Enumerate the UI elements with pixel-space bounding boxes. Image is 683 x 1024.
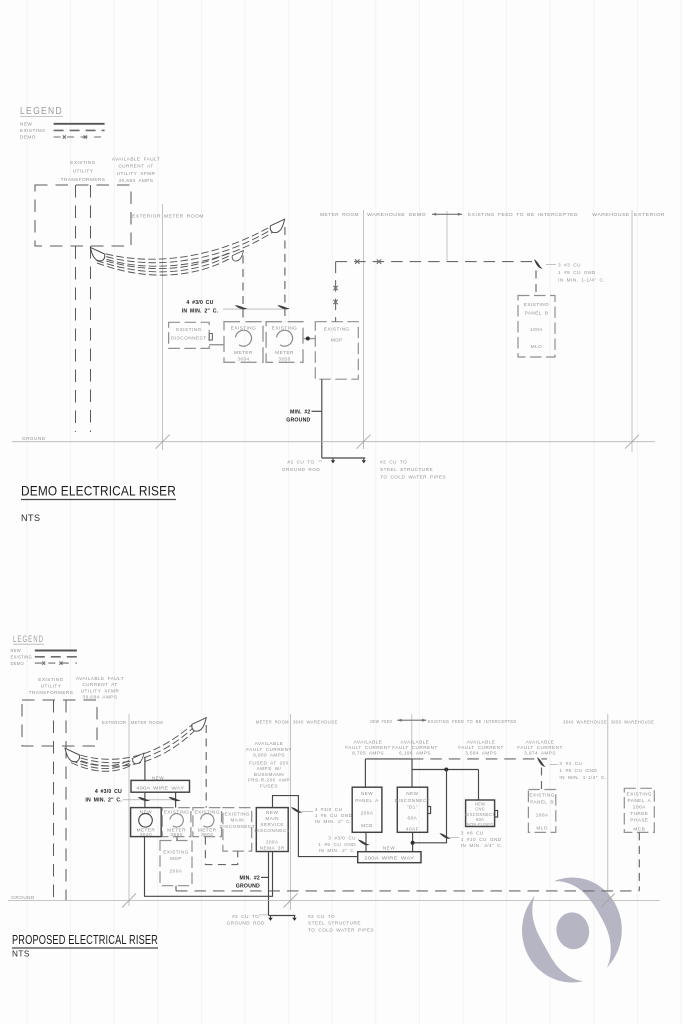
svg-text:THREE: THREE xyxy=(630,811,648,816)
svg-text:GROUND ROD: GROUND ROD xyxy=(227,921,266,926)
svg-text:PANEL A: PANEL A xyxy=(628,798,652,803)
svg-text:30,684 AMPS: 30,684 AMPS xyxy=(119,178,154,183)
svg-text:EXISTING: EXISTING xyxy=(524,302,549,307)
svg-text:EXISTING: EXISTING xyxy=(11,655,33,660)
svg-text:METER ROOM: METER ROOM xyxy=(164,214,204,219)
svg-text:UTILITY XFMR: UTILITY XFMR xyxy=(117,171,156,176)
svg-text:NEW: NEW xyxy=(11,648,21,653)
svg-text:IN MIN. 1-1/4" C.: IN MIN. 1-1/4" C. xyxy=(559,775,606,780)
svg-text:3650: 3650 xyxy=(278,356,290,361)
svg-text:MCB: MCB xyxy=(633,826,645,831)
svg-text:MCB: MCB xyxy=(361,823,373,828)
svg-text:IN MIN. 1-1/4" C.: IN MIN. 1-1/4" C. xyxy=(558,277,605,282)
svg-text:STEEL STRUCTURE: STEEL STRUCTURE xyxy=(380,467,433,472)
svg-text:LEGEND: LEGEND xyxy=(13,634,44,644)
svg-text:200A: 200A xyxy=(170,869,183,874)
svg-text:DISCONNECT: DISCONNECT xyxy=(254,828,290,833)
svg-text:GROUND: GROUND xyxy=(11,895,35,900)
svg-text:3,584 AMPS: 3,584 AMPS xyxy=(465,751,497,756)
svg-text:IN MIN. 2" C.: IN MIN. 2" C. xyxy=(182,308,219,314)
svg-text:AVAILABLE: AVAILABLE xyxy=(467,739,496,744)
svg-text:WAREHOUSE DEMO: WAREHOUSE DEMO xyxy=(367,212,426,217)
svg-text:EXISTING: EXISTING xyxy=(70,160,95,165)
svg-text:FAULT CURRENT: FAULT CURRENT xyxy=(345,745,391,750)
svg-text:PANEL B: PANEL B xyxy=(525,311,549,316)
svg-text:3 #3 CU: 3 #3 CU xyxy=(558,263,581,268)
svg-text:DEMO: DEMO xyxy=(11,661,24,666)
svg-text:PANEL B: PANEL B xyxy=(530,800,554,805)
svg-text:3640: 3640 xyxy=(140,832,152,837)
svg-text:3640 WAREHOUSE: 3640 WAREHOUSE xyxy=(563,720,607,725)
svg-text:DISCONNECT: DISCONNECT xyxy=(395,798,431,803)
svg-text:3650 WAREHOUSE: 3650 WAREHOUSE xyxy=(611,720,655,725)
svg-text:IN MIN. 2" C.: IN MIN. 2" C. xyxy=(319,848,356,853)
svg-text:NEMA 3R: NEMA 3R xyxy=(260,845,285,850)
svg-text:UTILITY: UTILITY xyxy=(41,683,62,688)
svg-text:#2 CU TO: #2 CU TO xyxy=(232,914,259,919)
svg-text:EXISTING: EXISTING xyxy=(324,327,349,332)
svg-text:GROUND: GROUND xyxy=(22,436,46,441)
svg-text:TO COLD WATER PIPES: TO COLD WATER PIPES xyxy=(380,474,446,479)
svg-text:NEW: NEW xyxy=(152,775,164,780)
svg-text:GROUND: GROUND xyxy=(236,884,260,890)
svg-text:GROUND ROD: GROUND ROD xyxy=(282,467,321,472)
svg-text:UTILITY XFMR: UTILITY XFMR xyxy=(81,688,120,693)
svg-text:3640 WAREHOUSE: 3640 WAREHOUSE xyxy=(293,719,338,724)
svg-text:NEW: NEW xyxy=(266,810,278,815)
svg-text:IN MIN. 3/4" C.: IN MIN. 3/4" C. xyxy=(461,843,503,848)
svg-text:EXISTING FEED TO BE INTERCEPTE: EXISTING FEED TO BE INTERCEPTED xyxy=(428,719,517,724)
svg-text:DEMO: DEMO xyxy=(20,135,36,140)
svg-text:IN MIN. 2" C.: IN MIN. 2" C. xyxy=(315,819,352,824)
svg-text:TRANSFORMERS: TRANSFORMERS xyxy=(29,690,74,695)
svg-text:40AF: 40AF xyxy=(406,827,419,832)
svg-text:TO COLD WATER PIPES: TO COLD WATER PIPES xyxy=(308,927,374,932)
svg-text:MDP: MDP xyxy=(331,338,343,343)
svg-text:NTS: NTS xyxy=(12,950,30,959)
svg-text:DEMO ELECTRICAL RISER: DEMO ELECTRICAL RISER xyxy=(21,484,176,499)
svg-text:200A: 200A xyxy=(266,840,279,845)
svg-text:NTS: NTS xyxy=(21,513,41,523)
svg-text:EXISTING: EXISTING xyxy=(529,793,554,798)
svg-text:400A WIRE WAY: 400A WIRE WAY xyxy=(136,785,185,791)
svg-text:METER ROOM: METER ROOM xyxy=(131,720,163,725)
svg-text:EXTERIOR: EXTERIOR xyxy=(132,214,161,219)
svg-text:AVAILABLE: AVAILABLE xyxy=(526,739,555,744)
svg-text:MIN. #2: MIN. #2 xyxy=(290,409,311,415)
svg-text:BUSSMANN: BUSSMANN xyxy=(254,772,284,777)
svg-text:STEEL STRUCTURE: STEEL STRUCTURE xyxy=(308,921,361,926)
svg-text:60A: 60A xyxy=(408,816,418,821)
svg-text:DISCONNECT: DISCONNECT xyxy=(171,336,207,341)
svg-text:EXISTING: EXISTING xyxy=(272,325,297,330)
svg-text:MLO: MLO xyxy=(531,344,543,349)
svg-text:"D1": "D1" xyxy=(407,805,418,810)
svg-text:EXTERIOR: EXTERIOR xyxy=(102,720,127,725)
svg-text:NEW: NEW xyxy=(383,845,395,850)
svg-text:3,974 AMPS: 3,974 AMPS xyxy=(524,751,556,756)
svg-text:MIN. #2: MIN. #2 xyxy=(239,876,260,882)
svg-text:4 #3/0 CU: 4 #3/0 CU xyxy=(315,807,343,812)
svg-text:200A WIRE WAY: 200A WIRE WAY xyxy=(364,856,415,862)
svg-text:1 #8 CU GND: 1 #8 CU GND xyxy=(559,768,597,773)
svg-text:EXISTING: EXISTING xyxy=(176,327,201,332)
svg-text:1 #8 CU GND: 1 #8 CU GND xyxy=(558,270,596,275)
svg-text:MDP: MDP xyxy=(170,856,182,861)
svg-text:3 #3/0 CU: 3 #3/0 CU xyxy=(328,836,356,841)
svg-text:FAULT CURRENT: FAULT CURRENT xyxy=(517,745,563,750)
svg-text:100A: 100A xyxy=(536,813,549,818)
svg-text:200A: 200A xyxy=(633,805,646,810)
svg-text:WAREHOUSE: WAREHOUSE xyxy=(592,212,630,217)
svg-text:1 #6 CU GND: 1 #6 CU GND xyxy=(315,813,353,818)
svg-text:EXISTING: EXISTING xyxy=(163,850,188,855)
svg-text:4 #3/0 CU: 4 #3/0 CU xyxy=(186,300,213,306)
svg-text:NON-FUSED: NON-FUSED xyxy=(467,822,494,827)
svg-text:200A: 200A xyxy=(361,811,374,816)
svg-text:6,196 AMPS: 6,196 AMPS xyxy=(399,751,431,756)
svg-text:LEGEND: LEGEND xyxy=(20,105,63,117)
svg-text:AVAILABLE: AVAILABLE xyxy=(401,739,430,744)
svg-text:AVAILABLE: AVAILABLE xyxy=(354,739,383,744)
svg-text:EXISTING: EXISTING xyxy=(20,128,45,133)
svg-text:DISCONNECT: DISCONNECT xyxy=(220,824,256,829)
svg-text:3 #3 CU: 3 #3 CU xyxy=(559,761,582,766)
svg-text:1 #10 CU GND: 1 #10 CU GND xyxy=(461,837,502,842)
svg-text:4 #3/0 CU: 4 #3/0 CU xyxy=(95,789,122,795)
svg-text:3604: 3604 xyxy=(201,832,213,837)
svg-text:MAIN: MAIN xyxy=(231,818,245,823)
svg-text:NEW: NEW xyxy=(20,122,32,127)
svg-text:TRANSFORMERS: TRANSFORMERS xyxy=(61,177,106,182)
svg-text:EXISTING: EXISTING xyxy=(627,792,652,797)
svg-text:AVAILABLE FAULT: AVAILABLE FAULT xyxy=(76,676,124,681)
svg-text:AVAILABLE: AVAILABLE xyxy=(255,741,284,746)
svg-text:EXISTING: EXISTING xyxy=(38,677,63,682)
svg-text:METER: METER xyxy=(234,350,253,355)
svg-text:FAULT CURRENT: FAULT CURRENT xyxy=(392,745,438,750)
svg-text:IN MIN. 2" C.: IN MIN. 2" C. xyxy=(85,798,122,804)
svg-text:FUSES: FUSES xyxy=(260,784,278,789)
svg-text:MLO: MLO xyxy=(536,826,548,831)
svg-text:3604: 3604 xyxy=(237,356,249,361)
svg-text:EXISTING FEED TO BE INTERCEPTE: EXISTING FEED TO BE INTERCEPTED xyxy=(468,212,578,217)
svg-text:NEW FEED: NEW FEED xyxy=(370,719,392,724)
svg-text:FRS-R-200 AMP: FRS-R-200 AMP xyxy=(248,778,290,783)
svg-text:8,705 AMPS: 8,705 AMPS xyxy=(352,751,384,756)
svg-text:SERVICE: SERVICE xyxy=(260,822,284,827)
svg-text:CURRENT AT: CURRENT AT xyxy=(118,164,153,169)
svg-text:CURRENT AT: CURRENT AT xyxy=(82,682,117,687)
svg-text:NEW: NEW xyxy=(406,791,418,796)
svg-text:UTILITY: UTILITY xyxy=(73,169,94,174)
svg-text:METER ROOM: METER ROOM xyxy=(256,719,289,724)
svg-text:METER: METER xyxy=(275,350,294,355)
svg-text:#2 CU TO: #2 CU TO xyxy=(380,459,407,464)
svg-text:EXTERIOR: EXTERIOR xyxy=(634,212,665,217)
svg-text:AMPS W/: AMPS W/ xyxy=(257,766,282,771)
svg-text:EXISTING: EXISTING xyxy=(225,811,250,816)
svg-text:#2 CU TO: #2 CU TO xyxy=(308,914,335,919)
svg-text:NEW: NEW xyxy=(361,791,373,796)
svg-text:100A: 100A xyxy=(530,327,543,332)
svg-text:30,684 AMPS: 30,684 AMPS xyxy=(83,695,118,700)
svg-text:#2 CU TO: #2 CU TO xyxy=(287,459,314,464)
svg-text:PROPOSED ELECTRICAL RISER: PROPOSED ELECTRICAL RISER xyxy=(12,933,158,947)
svg-text:MAIN: MAIN xyxy=(265,816,279,821)
svg-text:EXISTING: EXISTING xyxy=(231,325,256,330)
svg-text:PANEL A: PANEL A xyxy=(355,798,379,803)
svg-text:FAULT CURRENT: FAULT CURRENT xyxy=(458,745,504,750)
svg-text:GROUND: GROUND xyxy=(286,418,310,424)
svg-text:METER ROOM: METER ROOM xyxy=(320,212,359,217)
svg-text:FUSED AT 200: FUSED AT 200 xyxy=(249,760,289,765)
svg-text:3650: 3650 xyxy=(170,832,182,837)
svg-text:FAULT CURRENT: FAULT CURRENT xyxy=(246,747,292,752)
svg-text:PHASE: PHASE xyxy=(630,818,648,823)
svg-text:3 #8 CU: 3 #8 CU xyxy=(461,831,484,836)
svg-text:AVAILABLE FAULT: AVAILABLE FAULT xyxy=(112,157,160,162)
svg-text:1 #6 CU GND: 1 #6 CU GND xyxy=(318,842,356,847)
svg-text:9,000 AMPS: 9,000 AMPS xyxy=(253,753,285,758)
